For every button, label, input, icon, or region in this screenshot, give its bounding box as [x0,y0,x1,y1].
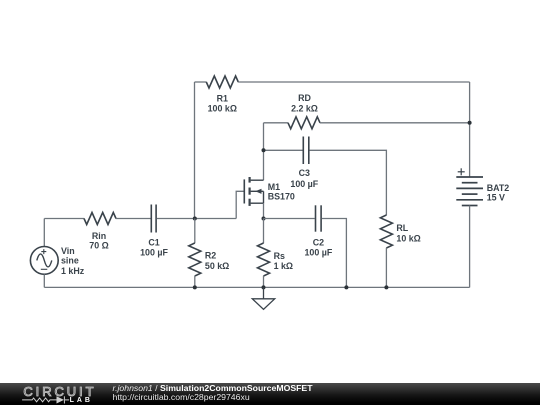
node ground junction [262,285,266,289]
transistor M1 [244,177,263,206]
svg-text:RL: RL [396,223,408,233]
svg-text:100 kΩ: 100 kΩ [208,103,237,113]
node RL bottom junction [384,285,388,289]
wire source node to C2 [264,218,315,220]
capacitor C1 [151,205,156,233]
voltage source Vin [30,247,58,275]
svg-text:1 kHz: 1 kHz [61,266,85,276]
wire RL bottom [385,248,387,288]
wire Rin to C1 [116,218,151,220]
node C2 bottom junction [344,285,348,289]
resistor Rin [84,213,116,225]
svg-text:70 Ω: 70 Ω [89,240,108,250]
svg-text:C1: C1 [148,238,159,248]
resistor RL [380,215,392,248]
battery plus sign [458,168,465,175]
svg-text:BS170: BS170 [268,192,295,202]
wire RD left (drain node to RD) [264,122,289,124]
svg-text:2.2 kΩ: 2.2 kΩ [291,103,318,113]
wire drain vertical [263,123,265,180]
wire RD right to battery column [320,122,470,124]
svg-text:100 µF: 100 µF [140,248,168,258]
wire right vertical to battery top [469,82,471,177]
resistor Rs [258,243,270,276]
svg-text:R1: R1 [217,93,228,103]
node RD battery junction [468,121,472,125]
wire Rs bottom [263,276,265,288]
svg-text:M1: M1 [268,182,280,192]
resistor R1 [206,76,238,88]
svg-text:100 µF: 100 µF [290,179,318,189]
wire top rail right of R1 [238,81,470,83]
svg-text:RD: RD [298,93,311,103]
resistor RD [288,117,320,129]
wire C3 right to RL top [310,150,387,215]
wire bottom rail [44,286,469,288]
resistor R2 [189,243,201,276]
node source junction [262,217,266,221]
wire top rail left of R1 [195,81,207,83]
svg-text:LAB: LAB [70,397,93,404]
wire gate L-bend [236,191,244,218]
wire R2 bottom [194,276,196,288]
wire battery bottom to bottom rail [469,206,471,288]
svg-text:10 kΩ: 10 kΩ [396,234,420,244]
svg-text:50 kΩ: 50 kΩ [205,261,229,271]
node drain C3 junction [262,148,266,152]
source Vin bottom wire [43,274,45,287]
svg-text:15 V: 15 V [487,193,505,203]
svg-text:1 kΩ: 1 kΩ [274,261,293,271]
wire source to node [263,203,265,218]
wire C2 right down to bottom rail [322,219,347,288]
footer text [113,384,313,402]
wire input node to Rin [44,218,84,220]
source Vin top wire [43,219,45,247]
capacitor C3 [303,137,309,165]
footer bar [0,383,540,405]
wire Rs top [263,219,265,244]
wire R2 top [194,219,196,244]
wire C1 to gate corner [157,218,236,220]
ground [252,287,274,309]
node input junction [193,217,197,221]
svg-text:C2: C2 [313,238,324,248]
svg-text:Rin: Rin [92,231,106,241]
battery BAT2 [456,177,483,206]
capacitor C2 [316,205,322,231]
svg-text:Rs: Rs [274,251,285,261]
wire C3 left [264,149,303,151]
svg-text:sine: sine [61,255,79,265]
svg-text:R2: R2 [205,251,216,261]
wire top-left vertical (R1 left leg down to input node) [194,82,196,219]
svg-text:Vin: Vin [61,246,75,256]
CircuitLab logo [16,383,116,405]
node R2 bottom junction [193,285,197,289]
svg-text:100 µF: 100 µF [304,248,332,258]
svg-text:C3: C3 [299,168,310,178]
